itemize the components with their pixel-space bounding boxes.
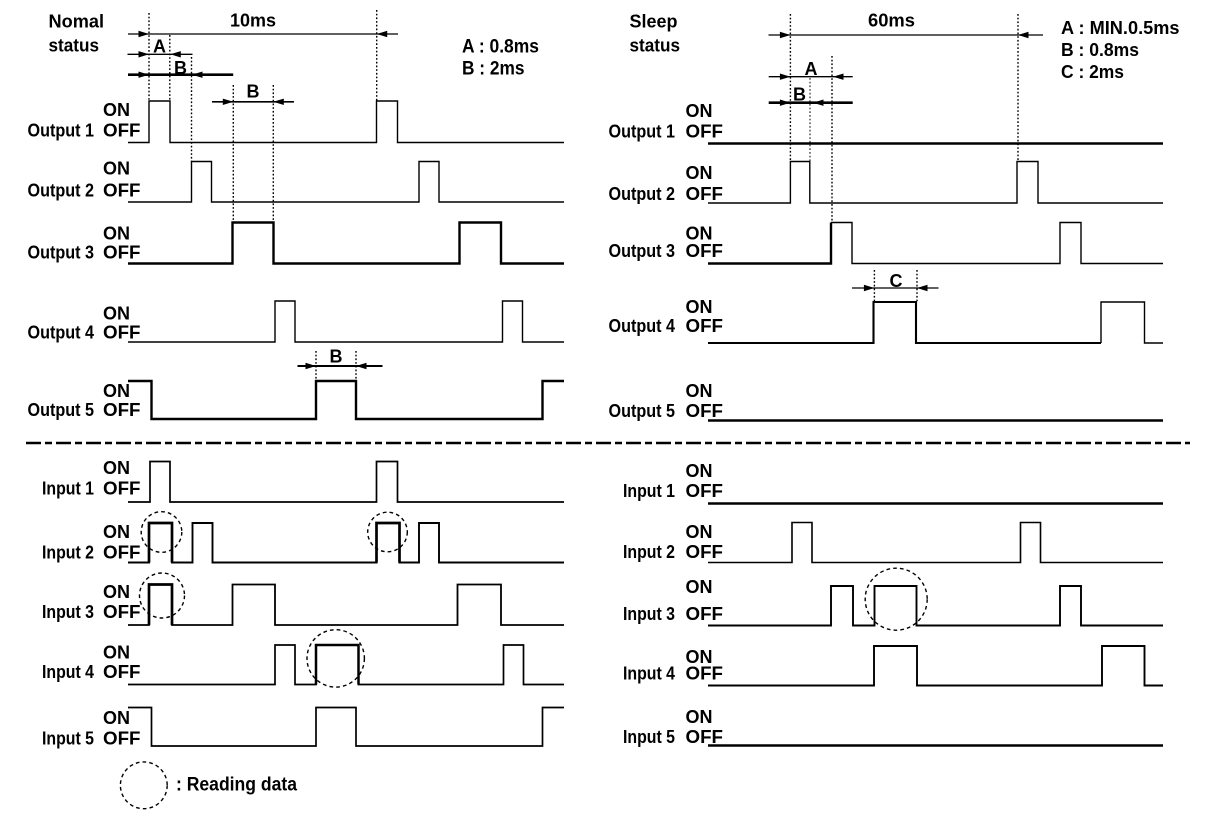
svg-text:ON: ON (103, 582, 130, 602)
svg-text:Output 4: Output 4 (28, 323, 95, 343)
svg-text:ON: ON (103, 159, 130, 179)
svg-text:OFF: OFF (103, 400, 141, 420)
svg-text:Input 4: Input 4 (623, 664, 675, 684)
svg-text:Nomal: Nomal (49, 12, 105, 32)
svg-text:OFF: OFF (686, 604, 724, 624)
svg-text:OFF: OFF (686, 121, 724, 141)
svg-text:60ms: 60ms (868, 11, 915, 31)
svg-text:ON: ON (103, 522, 130, 542)
svg-text:Input 2: Input 2 (623, 542, 675, 562)
svg-text:OFF: OFF (686, 481, 724, 501)
svg-text:Output 2: Output 2 (609, 184, 676, 204)
svg-text:OFF: OFF (103, 662, 141, 682)
svg-text:ON: ON (686, 577, 713, 597)
svg-text:OFF: OFF (686, 542, 724, 562)
svg-text:ON: ON (686, 163, 713, 183)
svg-text:status: status (630, 36, 681, 56)
svg-text:ON: ON (686, 297, 713, 317)
svg-text:Input 1: Input 1 (623, 481, 675, 501)
svg-text:ON: ON (686, 381, 713, 401)
svg-text:Input 5: Input 5 (623, 727, 675, 747)
svg-text:Output 1: Output 1 (28, 121, 95, 141)
svg-text:OFF: OFF (686, 316, 724, 336)
svg-text:ON: ON (103, 642, 130, 662)
svg-text:Input 3: Input 3 (42, 602, 94, 622)
svg-text:Output 5: Output 5 (609, 401, 676, 421)
svg-text:OFF: OFF (686, 241, 724, 261)
svg-text:OFF: OFF (103, 121, 141, 141)
svg-text:Input 4: Input 4 (42, 662, 94, 682)
svg-text:B: B (330, 347, 343, 367)
svg-text:Sleep: Sleep (630, 12, 678, 32)
svg-text:Input 3: Input 3 (623, 604, 675, 624)
svg-text:OFF: OFF (103, 543, 141, 563)
svg-text:status: status (49, 36, 100, 56)
svg-text:OFF: OFF (103, 323, 141, 343)
svg-text:OFF: OFF (686, 727, 724, 747)
svg-text:Output 1: Output 1 (609, 121, 676, 141)
svg-text:Input 2: Input 2 (42, 543, 94, 563)
svg-text:A: A (805, 59, 818, 79)
svg-text:OFF: OFF (686, 664, 724, 684)
svg-text:ON: ON (686, 522, 713, 542)
svg-text:ON: ON (103, 381, 130, 401)
svg-text:OFF: OFF (686, 184, 724, 204)
svg-text:OFF: OFF (103, 602, 141, 622)
svg-text:ON: ON (103, 458, 130, 478)
svg-text:ON: ON (686, 101, 713, 121)
svg-text:ON: ON (103, 224, 130, 244)
svg-text:ON: ON (686, 707, 713, 727)
svg-text:A: A (153, 37, 166, 57)
svg-text:Input 1: Input 1 (42, 479, 94, 499)
svg-text:B : 2ms: B : 2ms (462, 59, 525, 80)
svg-text:OFF: OFF (103, 181, 141, 201)
svg-text:OFF: OFF (686, 401, 724, 421)
svg-text:Output 3: Output 3 (28, 243, 95, 263)
svg-text:B : 0.8ms: B : 0.8ms (1061, 40, 1139, 60)
svg-text:ON: ON (103, 708, 130, 728)
svg-text:OFF: OFF (103, 479, 141, 499)
svg-text:OFF: OFF (103, 728, 141, 748)
svg-text:Input 5: Input 5 (42, 728, 94, 748)
svg-text:A : MIN.0.5ms: A : MIN.0.5ms (1061, 18, 1180, 38)
svg-text:Output 4: Output 4 (609, 316, 676, 336)
svg-text:ON: ON (103, 100, 130, 120)
svg-text:C : 2ms: C : 2ms (1061, 62, 1124, 82)
svg-text:ON: ON (103, 304, 130, 324)
svg-text:ON: ON (686, 461, 713, 481)
svg-text:OFF: OFF (103, 243, 141, 263)
svg-text:10ms: 10ms (230, 11, 276, 31)
svg-text:: Reading data: : Reading data (176, 775, 297, 796)
svg-text:Output 3: Output 3 (609, 241, 676, 261)
svg-text:Output 5: Output 5 (28, 400, 95, 420)
svg-text:Output 2: Output 2 (28, 181, 95, 201)
svg-text:B: B (247, 82, 260, 102)
svg-text:A : 0.8ms: A : 0.8ms (462, 37, 539, 58)
